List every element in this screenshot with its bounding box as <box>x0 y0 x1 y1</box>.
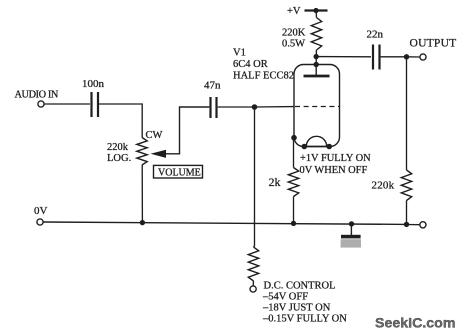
anode plate of V1 <box>304 65 330 77</box>
junction R3/0V <box>404 222 409 227</box>
junction cathode lead on envelope <box>291 135 297 141</box>
svg-text:100n: 100n <box>82 78 105 90</box>
junction R2/0V <box>291 221 296 226</box>
svg-text:6C4 OR: 6C4 OR <box>233 59 268 70</box>
resistor R4 D.C. control <box>248 247 258 281</box>
svg-text:AUDIO IN: AUDIO IN <box>15 90 59 101</box>
wire to 0V right terminal <box>407 224 420 226</box>
junction ground/0V <box>349 221 354 226</box>
wire R1 to anode node <box>315 50 317 65</box>
ground <box>341 224 361 248</box>
svg-text:V1: V1 <box>233 48 246 59</box>
wire grid node to tube grid <box>255 106 295 108</box>
terminal D.C. CONTROL <box>250 286 256 292</box>
junction pot/0V <box>140 220 145 225</box>
junction anode/output node <box>314 54 319 59</box>
svg-text:–0.15V FULLY ON: –0.15V FULLY ON <box>262 314 347 325</box>
svg-text:CW: CW <box>146 130 163 141</box>
svg-text:D.C. CONTROL: D.C. CONTROL <box>264 281 336 292</box>
supply rail +V <box>305 8 328 13</box>
wire C2 to grid node <box>218 106 255 108</box>
svg-text:SeekIC.com: SeekIC.com <box>375 316 455 332</box>
wire C3 to output node <box>381 56 407 58</box>
wire 0V rail <box>43 222 406 224</box>
wire C1 to pot top <box>99 104 142 138</box>
svg-text:–18V JUST ON: –18V JUST ON <box>262 303 331 314</box>
terminal OUTPUT <box>420 54 426 60</box>
svg-text:LOG.: LOG. <box>107 153 131 164</box>
svg-text:220k: 220k <box>372 180 395 192</box>
wiper arrow of VR1 <box>151 107 210 158</box>
wire R3 to 0V rail <box>406 201 408 225</box>
wire +V to R1 <box>315 11 317 18</box>
resistor R1 220K 0.5W <box>311 18 321 51</box>
resistor R2 2k <box>288 168 298 197</box>
wire output node to terminal <box>407 56 420 58</box>
svg-text:0V: 0V <box>34 205 48 217</box>
grid (dashed) of V1 <box>295 106 339 108</box>
wire pot bottom to 0V rail <box>141 165 143 223</box>
capacitor C3 22n <box>373 45 380 70</box>
wire input to C1 <box>44 103 90 105</box>
svg-text:OUTPUT: OUTPUT <box>410 37 457 50</box>
junction grid node <box>252 104 258 110</box>
capacitor C1 100n <box>92 92 99 117</box>
svg-text:220K: 220K <box>282 28 306 39</box>
terminal AUDIO IN <box>38 101 44 107</box>
wire R2 to 0V rail <box>293 197 295 224</box>
cathode of V1 <box>302 136 333 149</box>
terminal 0V left <box>37 219 43 225</box>
svg-text:–54V OFF: –54V OFF <box>262 292 308 303</box>
svg-text:0V WHEN OFF: 0V WHEN OFF <box>300 165 368 176</box>
svg-text:VOLUME: VOLUME <box>158 168 201 179</box>
svg-text:220k: 220k <box>107 142 129 153</box>
label VOLUME (boxed) <box>154 165 203 178</box>
capacitor C2 47n <box>211 97 217 118</box>
wire R4 to terminal <box>252 281 254 286</box>
svg-text:22n: 22n <box>367 29 384 41</box>
tube V1 envelope <box>294 65 340 147</box>
resistor R3 220k <box>401 170 411 201</box>
wire cathode to R2 <box>293 138 295 168</box>
junction anode lead on envelope <box>314 62 319 67</box>
terminal 0V right <box>420 222 426 228</box>
svg-text:HALF ECC82: HALF ECC82 <box>233 70 294 81</box>
svg-text:0.5W: 0.5W <box>282 39 305 50</box>
svg-text:47n: 47n <box>204 80 221 92</box>
junction output node <box>404 54 409 59</box>
svg-text:2k: 2k <box>269 175 281 189</box>
wire output node down to R3 <box>406 57 408 170</box>
wire anode node to C3 <box>316 56 371 58</box>
wire grid node down to R4 (D.C. control) <box>254 107 255 247</box>
svg-text:+V: +V <box>287 6 301 17</box>
svg-text:+1V FULLY ON: +1V FULLY ON <box>300 153 371 164</box>
potentiometer VR1 220k LOG <box>137 138 147 166</box>
